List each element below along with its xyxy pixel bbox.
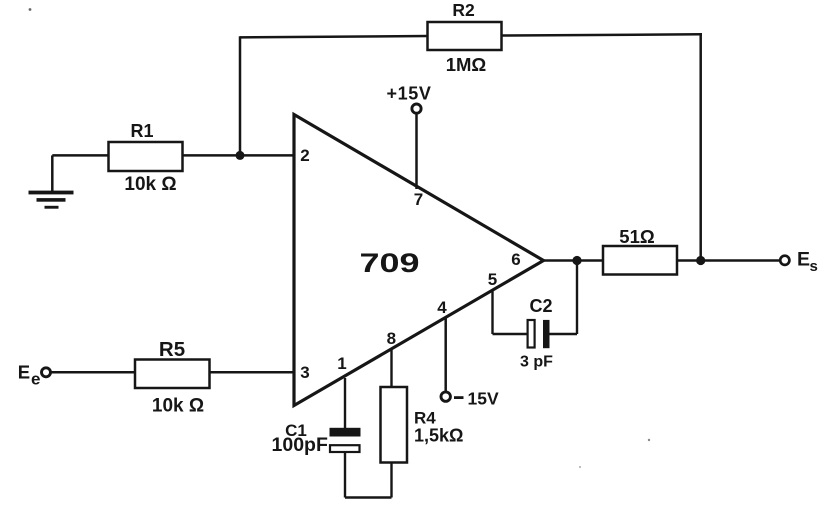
svg-text:+15V: +15V <box>387 84 432 104</box>
resistor R1 <box>109 121 183 195</box>
svg-text:3: 3 <box>300 363 309 382</box>
ground <box>29 155 74 208</box>
speck lower right scan artifact <box>648 439 650 441</box>
svg-text:2: 2 <box>300 146 309 165</box>
pin 8 label <box>387 329 396 348</box>
op-amp U1 709 <box>294 115 544 406</box>
wire op-amp output to 51 ohm resistor <box>542 259 603 262</box>
pin 5 label <box>488 270 497 289</box>
pin 1 label <box>337 354 346 373</box>
svg-text:R5: R5 <box>159 338 185 361</box>
wire feedback right vertical <box>699 33 702 260</box>
svg-text:7: 7 <box>414 190 423 209</box>
svg-text:R2: R2 <box>452 0 475 20</box>
svg-text:4: 4 <box>437 298 447 317</box>
resistor R5 <box>135 338 210 417</box>
pin 2 label <box>300 146 309 165</box>
terminal Es output <box>780 248 818 275</box>
wire pin 1 down to C1 <box>344 378 346 429</box>
node A output junction <box>572 256 581 265</box>
wire C1 bottom to bottom rail <box>344 452 346 498</box>
wire ground to R1 <box>52 154 108 157</box>
pin 7 label <box>414 190 423 209</box>
wire pin 5 down and right to C2 <box>493 290 529 334</box>
wire Ee to R5 <box>51 371 135 374</box>
wire R5 to op-amp pin 3 <box>210 371 295 374</box>
speck lower middle scan artifact <box>579 466 581 468</box>
capacitor C2 <box>520 296 553 371</box>
wire bottom rail C1 to R4 <box>345 496 392 498</box>
resistor R4 <box>381 387 464 463</box>
svg-text:5: 5 <box>488 270 497 289</box>
resistor R2 <box>428 0 502 75</box>
svg-text:s: s <box>810 258 818 275</box>
svg-text:10k Ω: 10k Ω <box>124 174 176 195</box>
wire R1 to op-amp pin 2 <box>183 154 295 157</box>
svg-text:1: 1 <box>337 354 346 373</box>
+15V supply terminal <box>387 84 432 190</box>
svg-text:C2: C2 <box>529 296 552 316</box>
svg-text:1,5kΩ: 1,5kΩ <box>414 426 463 446</box>
svg-text:3 pF: 3 pF <box>520 354 553 371</box>
-15V supply terminal <box>441 317 499 408</box>
node junction R1/R2/pin2 <box>236 151 245 160</box>
svg-text:8: 8 <box>387 329 396 348</box>
wire pin 8 down to R4 <box>390 348 392 387</box>
pin 6 label <box>511 250 520 269</box>
wire feedback left vertical <box>239 36 242 155</box>
capacitor C1 <box>272 421 361 456</box>
svg-text:51Ω: 51Ω <box>619 226 655 247</box>
pin 4 label <box>437 298 447 317</box>
svg-text:10k Ω: 10k Ω <box>152 396 204 417</box>
resistor 51 ohm <box>603 226 677 275</box>
svg-text:e: e <box>31 370 40 389</box>
svg-text:100pF: 100pF <box>272 434 328 456</box>
wire R4 bottom vertical <box>390 463 392 498</box>
svg-text:E: E <box>797 248 810 270</box>
pin 3 label <box>300 363 309 382</box>
svg-text:709: 709 <box>360 248 420 278</box>
wire 51 ohm to Es terminal <box>677 259 780 262</box>
svg-text:R1: R1 <box>130 121 153 141</box>
terminal Ee input <box>18 362 51 389</box>
svg-text:6: 6 <box>511 250 520 269</box>
wire C2 right to node A <box>550 261 578 335</box>
speck top-left scan artifact <box>29 8 32 11</box>
node B feedback junction <box>696 256 705 265</box>
svg-text:E: E <box>18 362 30 383</box>
svg-text:1MΩ: 1MΩ <box>446 54 487 75</box>
wire top feedback horizontal left segment <box>240 36 428 37</box>
svg-text:15V: 15V <box>468 388 499 408</box>
wire top feedback horizontal right segment <box>501 34 702 35</box>
